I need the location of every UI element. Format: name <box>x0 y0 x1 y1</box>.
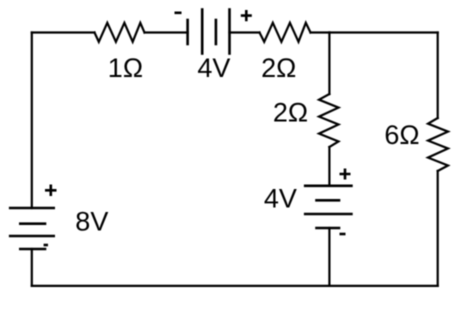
wire left: top corner down to battery B3 <box>31 33 33 209</box>
wire top: battery B1 to resistor R2 <box>230 31 260 33</box>
wire left: battery B3 to bottom-left corner <box>31 249 33 286</box>
battery B1 4V left short plate <box>186 20 189 44</box>
polarity plus of battery B1 <box>241 10 252 21</box>
battery B2 4V long plate 1 <box>305 185 351 188</box>
battery B1 4V tall plate 1 <box>201 10 204 54</box>
polarity minus of battery B3 <box>44 244 48 247</box>
wire bottom: middle junction to right corner <box>329 285 437 287</box>
wire top: left corner to resistor R1 <box>32 31 95 33</box>
polarity plus of battery B3 <box>45 185 57 197</box>
resistor R4 6ohm vertical <box>428 118 448 171</box>
resistor R2 2ohm horizontal <box>260 23 311 42</box>
wire bottom: left corner to middle junction <box>32 285 330 287</box>
wire right: R4 to bottom-right corner <box>437 171 439 286</box>
wire middle: R3 to battery B2 <box>328 147 330 186</box>
svg-text:4V: 4V <box>264 184 297 214</box>
battery B2 4V short plate 1 <box>317 199 340 202</box>
polarity minus of battery B2 <box>340 233 346 236</box>
battery B3 8V short plate 2 <box>20 248 45 251</box>
polarity minus of battery B1 <box>175 12 182 15</box>
battery B1 4V tall plate 2 <box>228 10 231 54</box>
svg-text:4V: 4V <box>197 53 230 83</box>
svg-text:2Ω: 2Ω <box>261 53 296 83</box>
polarity plus of battery B2 <box>340 169 351 180</box>
resistor R1 1ohm <box>95 23 145 42</box>
wire top: R2 to node A junction <box>311 31 330 33</box>
svg-text:2Ω: 2Ω <box>273 98 308 128</box>
wire right: top corner down to resistor R4 <box>437 33 439 119</box>
wire top: node A to top-right corner <box>329 31 437 33</box>
battery B1 4V middle short plate <box>215 20 218 44</box>
battery B3 8V short plate 1 <box>20 222 45 225</box>
wire middle: battery B2 to bottom junction <box>328 228 330 286</box>
wire middle: node A down to resistor R3 <box>328 33 330 95</box>
resistor R3 2ohm vertical <box>319 94 339 147</box>
battery B2 4V long plate 2 <box>305 213 351 216</box>
battery B2 4V short plate 2 <box>317 227 340 230</box>
svg-text:8V: 8V <box>75 206 108 236</box>
battery B3 8V long plate 2 <box>10 235 54 238</box>
battery B3 8V long plate 1 <box>10 207 54 210</box>
wire top: R1 to battery B1 <box>145 31 188 33</box>
svg-text:6Ω: 6Ω <box>384 120 419 150</box>
svg-text:1Ω: 1Ω <box>108 53 143 83</box>
